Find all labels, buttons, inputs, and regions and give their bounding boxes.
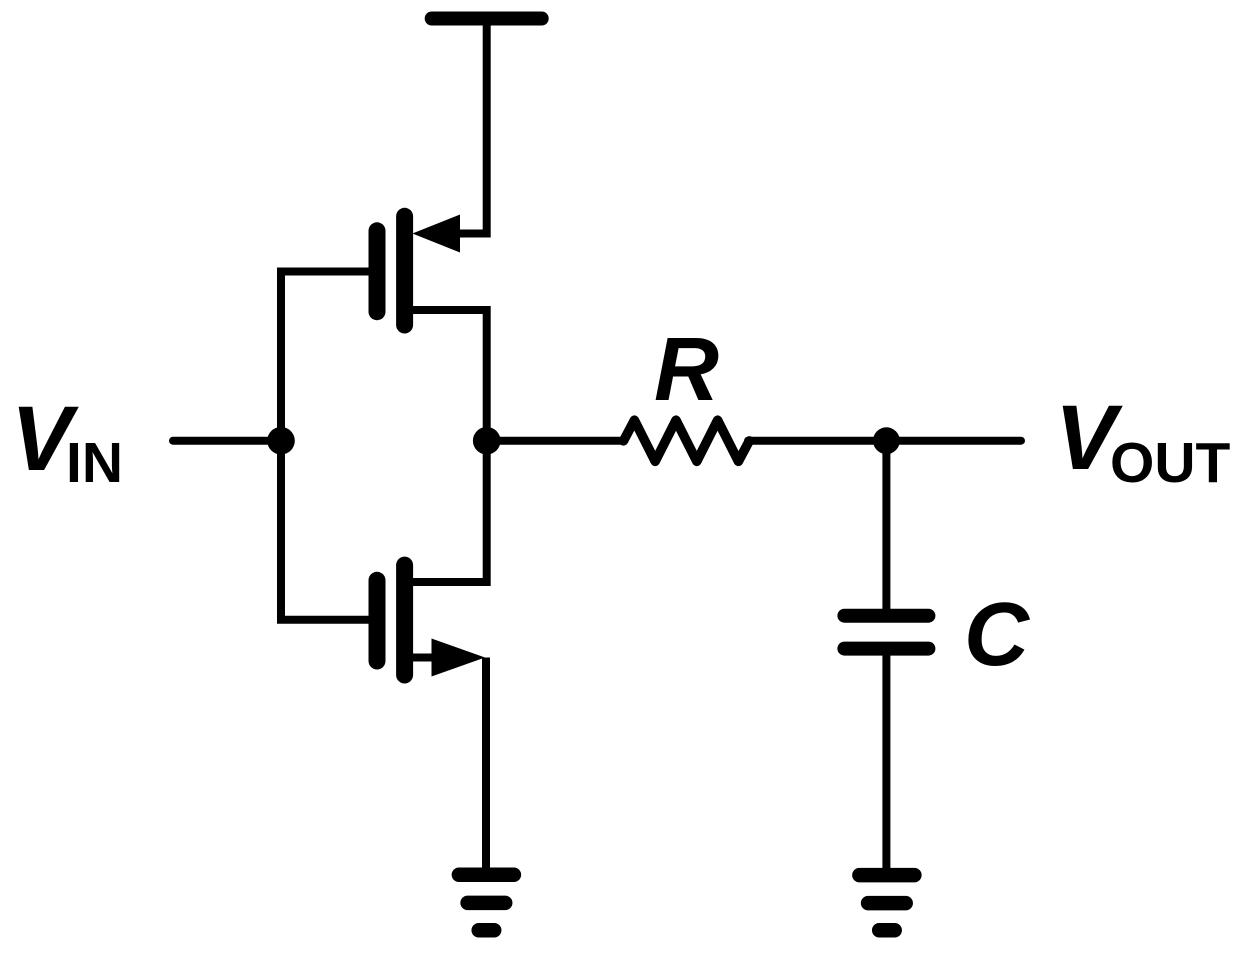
svg-text:R: R	[654, 320, 719, 420]
svg-text:IN: IN	[66, 431, 123, 495]
svg-text:C: C	[964, 585, 1031, 685]
svg-text:OUT: OUT	[1110, 431, 1231, 495]
